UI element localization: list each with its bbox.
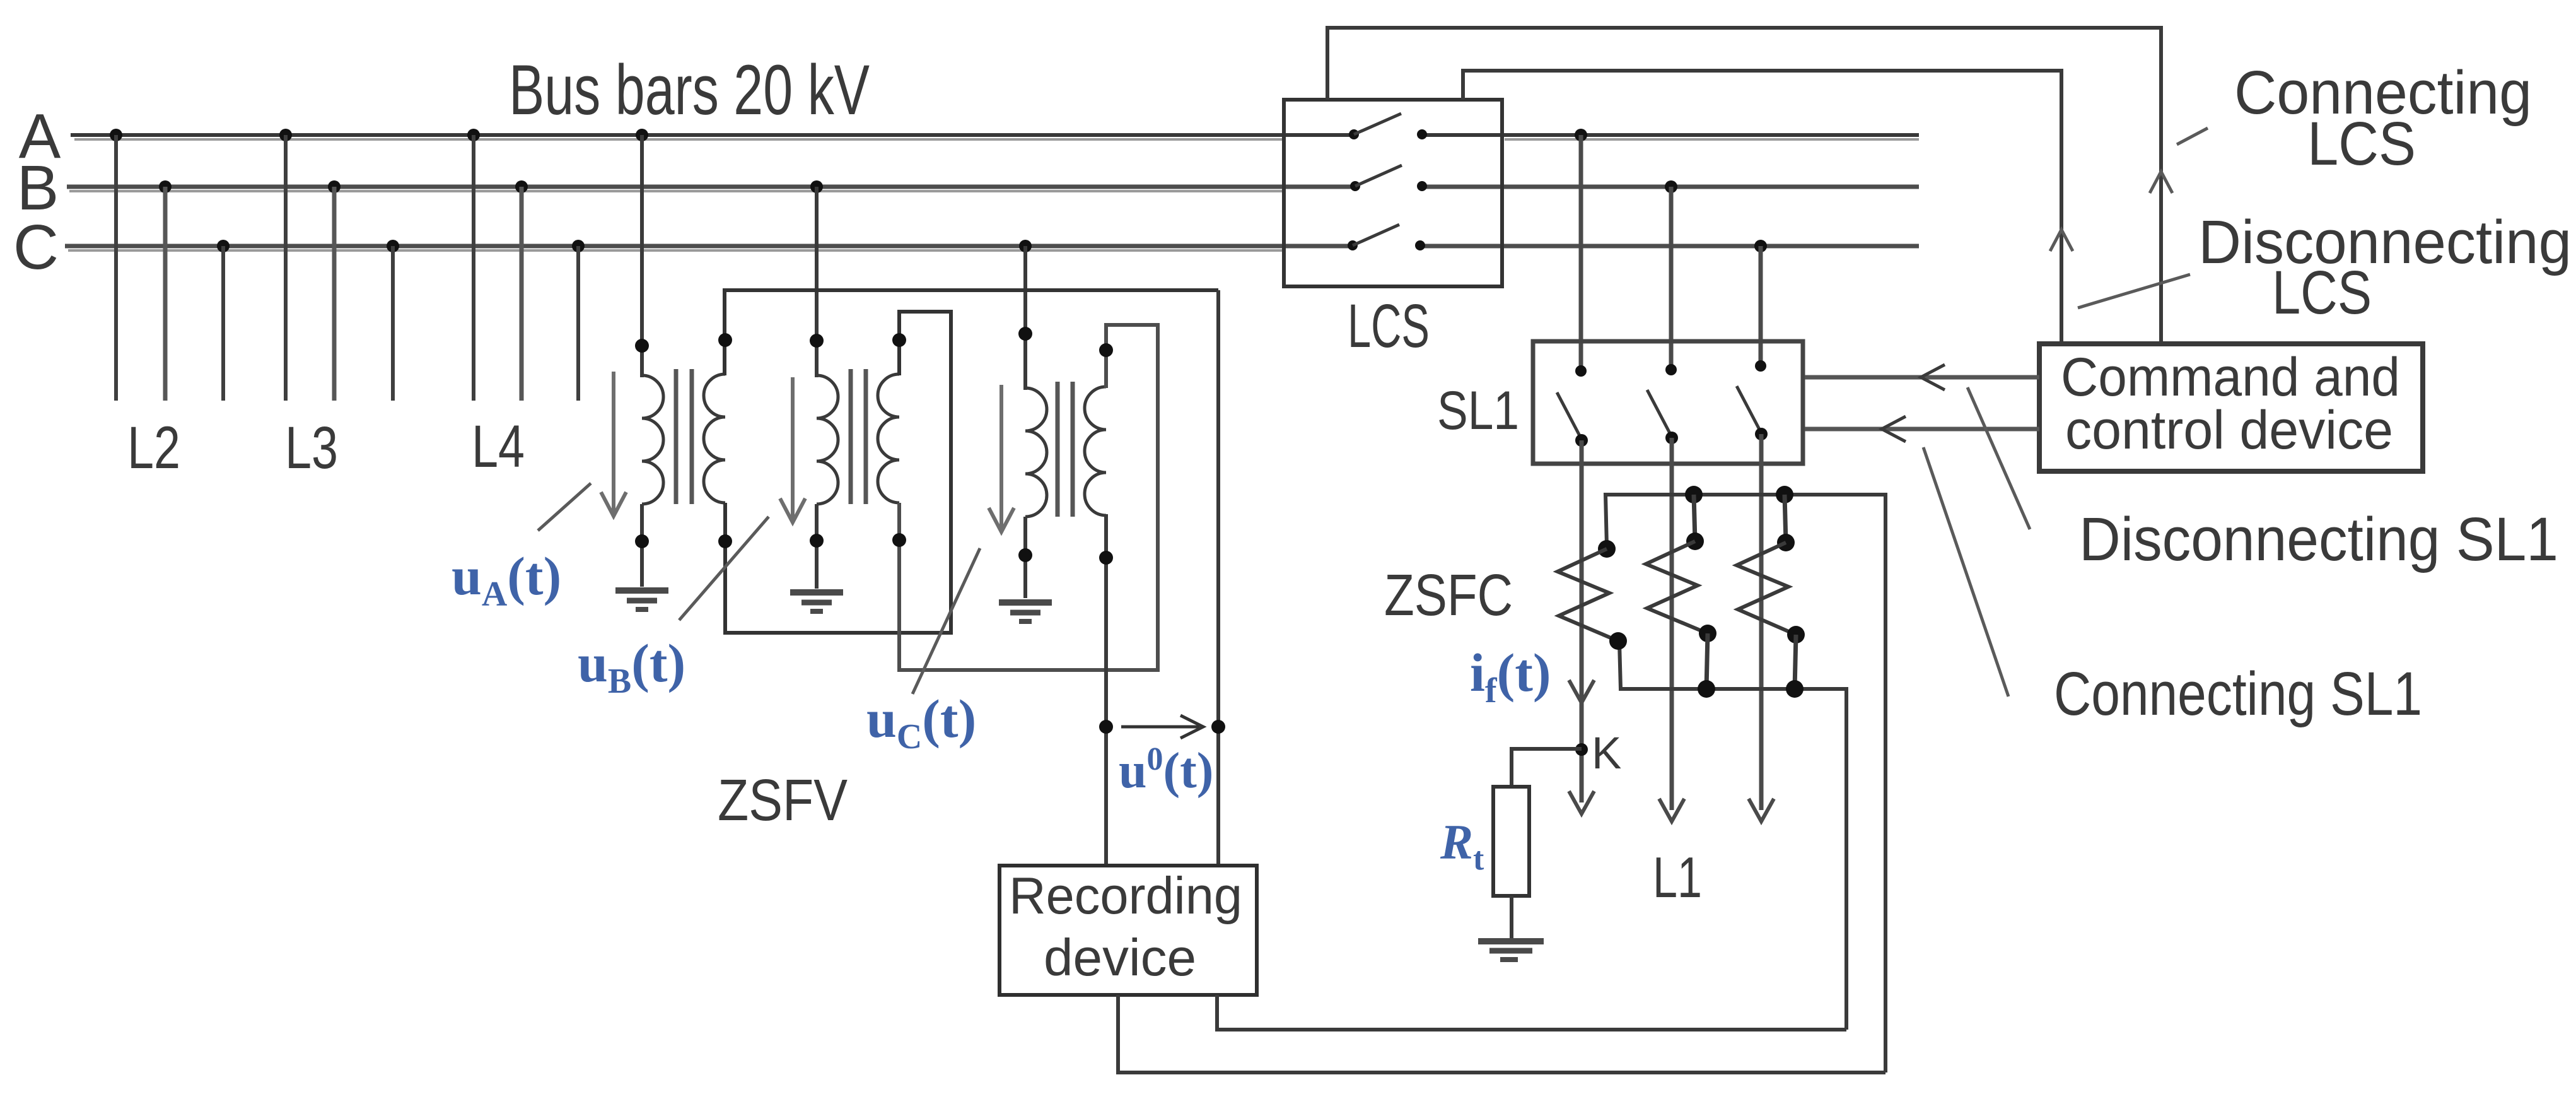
resistor ZSFC R1 [1558, 540, 1627, 650]
feeder L4 phase C wire [572, 240, 585, 401]
bus bar B wire right of LCS [1422, 185, 1919, 189]
transformer T2 secondary winding [878, 374, 899, 503]
bus bar A wire [71, 135, 1354, 139]
transformer T2 voltage arrow uB [780, 377, 805, 522]
feeder L2 phase C wire [217, 240, 230, 401]
leader uB [679, 517, 769, 620]
svg-text:LCS: LCS [2272, 258, 2372, 327]
transformer T2 ground [790, 592, 843, 611]
LCS switch C [1348, 225, 1425, 250]
arrowhead left on lower SL1 command wire [1882, 416, 1906, 442]
resistor Rt body [1493, 787, 1529, 896]
node u0 left [1099, 720, 1113, 734]
svg-text:device: device [1044, 928, 1196, 987]
transformer T3 secondary winding [1085, 387, 1106, 515]
arrowhead phase C end [1749, 799, 1774, 821]
command and control device box [2039, 344, 2423, 471]
svg-text:uB(t): uB(t) [578, 633, 685, 701]
arrowhead phase B end [1659, 799, 1684, 821]
wire command to SL1 lower [1805, 427, 2039, 432]
feeder L4 phase A wire [467, 129, 480, 401]
feeder L3 phase C wire [387, 240, 399, 401]
svg-text:L4: L4 [472, 413, 525, 480]
transformer T3 phase C primary feed wire [1018, 240, 1032, 390]
leader Connecting SL1 [1923, 447, 2008, 696]
leader Connecting LCS [2177, 128, 2208, 144]
arrowhead left on upper SL1 command wire [1921, 365, 1945, 390]
node u0 right [1211, 720, 1225, 734]
transformer T1 ground [615, 591, 668, 609]
node secondary T3 bottom [1099, 551, 1113, 565]
node secondary T2 top [892, 333, 906, 347]
wire LCS connect command (top) [1327, 28, 2161, 344]
transformer T1 secondary winding [704, 374, 725, 503]
svg-text:Disconnecting SL1: Disconnecting SL1 [2079, 505, 2558, 573]
svg-text:Bus bars 20 kV: Bus bars 20 kV [509, 50, 870, 129]
wire bus B to SL1 [1665, 180, 1677, 375]
transformer T2 phase B primary feed wire [810, 180, 824, 377]
svg-text:K: K [1592, 729, 1621, 779]
LCS switch B [1350, 165, 1427, 191]
svg-text:Recording: Recording [1009, 866, 1242, 925]
SL1 switch B [1647, 390, 1678, 444]
transformer T3 ground [999, 602, 1052, 621]
LCS box [1284, 100, 1502, 286]
SL1 box [1533, 341, 1803, 464]
bus bar A wire right of LCS [1422, 135, 1919, 139]
bus bar C wire [65, 246, 1353, 250]
node secondary T2 bottom [892, 533, 906, 547]
svg-text:if(t): if(t) [1470, 642, 1551, 710]
leader Disconnecting LCS [2078, 274, 2190, 308]
svg-text:control device: control device [2065, 400, 2393, 461]
transformer T1 core [676, 369, 692, 504]
transformer T2 primary bottom wire [810, 504, 824, 589]
leader uC [912, 548, 980, 694]
wire T2 secondary to loop2 rail [899, 325, 1158, 670]
arrowhead phase A end [1569, 791, 1594, 814]
bus bar C wire right of LCS [1420, 244, 1919, 249]
transformer T1 phase A primary feed wire [635, 129, 649, 377]
svg-text:SL1: SL1 [1437, 380, 1519, 441]
svg-text:L2: L2 [127, 414, 180, 481]
recording device box [1000, 866, 1257, 995]
bus bar B wire [67, 187, 1355, 191]
wire Rt to ground [1510, 896, 1513, 939]
transformer T1 primary bottom wire [635, 504, 649, 587]
svg-text:LCS: LCS [2307, 109, 2416, 178]
ground Rt [1478, 941, 1544, 960]
svg-text:L1: L1 [1653, 846, 1702, 910]
node secondary T1 bottom [718, 534, 732, 548]
wire LCS disconnect command (second) [1463, 71, 2061, 344]
transformer T3 core [1058, 382, 1073, 517]
wire T3 secondary to recording device left input [1104, 514, 1108, 866]
svg-text:Command and: Command and [2061, 347, 2400, 408]
feeder L2 phase B wire [159, 180, 172, 401]
svg-text:ZSFV: ZSFV [718, 767, 848, 833]
wire loop1 right edge to recording device right input [1216, 290, 1220, 866]
svg-text:LCS: LCS [1348, 291, 1430, 360]
wire bus C to SL1 [1754, 240, 1767, 372]
ZSFC bottom rail [1619, 642, 1846, 1030]
SL1 switch A [1557, 392, 1588, 447]
wire SL1 phase B down to L1 [1670, 438, 1674, 810]
LCS switch A [1349, 114, 1427, 139]
wire SL1 phase A down to K and L1 [1580, 440, 1584, 802]
svg-text:Connecting SL1: Connecting SL1 [2054, 659, 2422, 728]
feeder L4 phase B wire [515, 180, 528, 401]
transformer T3 primary winding [1025, 388, 1047, 517]
wire T1 secondary to loop1 bottom rail [725, 312, 951, 633]
transformer T1 primary winding [642, 375, 663, 504]
wire SL1 phase C down to L1 [1759, 434, 1764, 810]
transformer T1 voltage arrow uA [601, 372, 626, 516]
transformer T2 primary winding [817, 375, 838, 504]
arrowhead up on disconnect LCS wire [2050, 230, 2073, 251]
svg-text:L3: L3 [285, 414, 338, 481]
wire recording left output to ZSFC top rail [1118, 995, 1885, 1073]
feeder L2 phase A wire [110, 129, 122, 401]
arrowhead up on connect LCS wire [2150, 172, 2172, 193]
transformer T2 core [851, 369, 866, 504]
feeder L3 phase B wire [328, 180, 341, 401]
transformer T3 voltage arrow uC [989, 385, 1014, 532]
svg-text:C: C [13, 212, 59, 283]
SL1 switch C [1737, 386, 1768, 440]
node secondary T1 top [718, 333, 732, 347]
arrowhead if(t) on phase A [1569, 680, 1594, 703]
leader Disconnecting SL1 [1967, 387, 2030, 529]
wire command to SL1 upper [1805, 375, 2039, 380]
leader uA [538, 483, 591, 531]
wire recording right output to ZSFC bottom rail [1217, 995, 1846, 1030]
arrow u0 [1121, 715, 1203, 738]
wire K to Rt [1512, 749, 1582, 787]
open delta loop 1 top rail [725, 290, 1218, 375]
node K [1575, 743, 1588, 756]
svg-text:u0(t): u0(t) [1119, 741, 1213, 799]
svg-text:ZSFC: ZSFC [1384, 562, 1513, 628]
wire bus A to SL1 [1575, 129, 1587, 377]
feeder L3 phase A wire [279, 129, 292, 401]
resistor ZSFC R2 [1646, 486, 1716, 698]
node secondary T3 top [1099, 343, 1113, 357]
svg-text:Disconnecting: Disconnecting [2198, 208, 2572, 276]
ZSFC top rail [1606, 495, 1885, 1073]
resistor ZSFC R3 [1737, 486, 1805, 698]
transformer T3 primary bottom wire [1018, 517, 1032, 598]
